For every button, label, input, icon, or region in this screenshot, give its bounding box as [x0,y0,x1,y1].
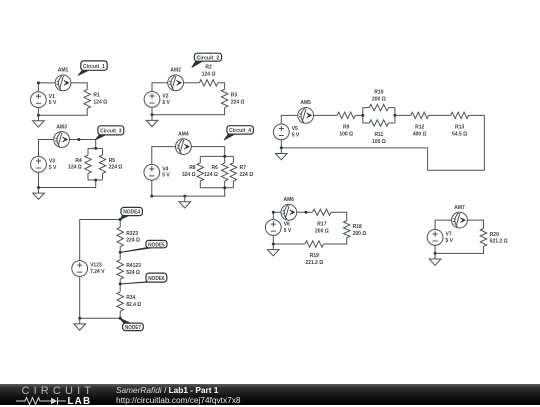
svg-text:V4: V4 [162,167,168,173]
resistor R4123 [117,252,123,284]
junction V7 bottom [434,252,437,255]
svg-text:R4: R4 [75,158,82,164]
resistor R4 [85,148,91,180]
label R18 value [353,224,367,237]
resistor R1 [84,90,90,109]
ground [74,318,86,330]
resistor R6 [222,156,228,187]
svg-text:V123: V123 [90,263,102,269]
svg-text:R1: R1 [93,93,100,99]
resistor R323 [117,220,123,253]
label V1 value [49,94,57,106]
resistor R34 [117,284,123,318]
wire parallel top rail [88,147,103,149]
flag label NODE4 [120,207,142,219]
svg-text:200 Ω: 200 Ω [315,228,329,234]
resistor R10 [369,104,388,110]
flag label Circuit_2 [192,53,222,67]
resistor R17 [313,209,332,215]
junction parallel left [361,114,364,117]
wire parallel bottom to V4 bottom [152,180,225,196]
svg-text:Circuit_4: Circuit_4 [229,128,251,134]
svg-text:AM6: AM6 [284,197,295,203]
svg-text:124 Ω: 124 Ω [202,71,216,77]
ammeter AM1 [55,75,71,91]
svg-text:R3: R3 [231,93,238,99]
svg-text:AM5: AM5 [300,100,311,106]
ammeter AM4 [176,139,192,155]
svg-text:NODE5: NODE5 [148,242,165,248]
resistor R2 [199,80,218,86]
wire chain bottom to V123 bottom [80,276,121,318]
ammeter AM7 [452,212,468,228]
junction parallel top [94,147,97,150]
svg-text:R18: R18 [353,224,362,230]
junction V5 bottom [280,146,283,149]
svg-text:400 Ω: 400 Ω [413,131,427,137]
node NODE7 junction [119,317,122,320]
voltage source V123 [72,261,88,277]
svg-text:124 Ω: 124 Ω [204,172,218,178]
wire V6 top to AM6 [273,212,281,219]
voltage source V4 [144,164,160,180]
ground [429,253,441,265]
svg-text:5 V: 5 V [292,132,300,138]
logo wire glyph [16,396,76,406]
svg-text:124 Ω: 124 Ω [68,165,82,171]
ammeter AM3 [54,132,70,148]
wire R19 to V6 bottom [273,235,305,244]
svg-text:Circuit_3: Circuit_3 [100,129,122,135]
label R20 value [490,232,508,245]
svg-text:224 Ω: 224 Ω [240,172,254,178]
resistor R9 [337,112,355,118]
svg-text:224 Ω: 224 Ω [109,165,123,171]
resistor R12 [411,112,429,118]
wire AM2 to R2 [184,82,200,84]
resistor R11 [369,120,388,126]
label R6 value [204,165,218,178]
wire to R12 [395,114,411,116]
resistor R8 [197,156,203,187]
svg-text:R323: R323 [126,231,138,237]
label R9 value [339,125,353,138]
ammeter AM6 [281,204,297,220]
wire V3 top to AM3 [39,140,54,157]
label R4 value [68,158,82,171]
svg-text:5 V: 5 V [284,228,292,234]
label R19 value [305,253,323,266]
label R3 value [231,93,245,106]
resistor R13 [451,112,469,118]
wire parallel box right [394,108,396,123]
junction V6 top [272,211,275,214]
junction circuit1 top-left [37,81,40,84]
svg-text:V2: V2 [162,94,168,100]
wire R18 bottom to R19 [324,238,347,244]
voltage source V3 [31,157,47,173]
flag label NODE6 [120,273,167,284]
resistor R7 [230,156,236,187]
ground [268,244,280,256]
svg-text:Circuit_1: Circuit_1 [83,64,105,70]
svg-text:82.4 Ω: 82.4 Ω [126,302,141,308]
svg-text:R8: R8 [189,165,196,171]
svg-text:R2: R2 [205,65,212,71]
svg-text:5 V: 5 V [446,238,454,244]
label R2 value [202,65,216,78]
label V6 value [284,222,292,234]
svg-text:Circuit_2: Circuit_2 [197,55,220,61]
label V7 value [446,232,454,244]
label R10 value [372,89,386,102]
svg-text:AM1: AM1 [58,68,69,74]
wire V7 top to AM7 [435,220,452,229]
junction circuit3 bottom-left [37,186,40,189]
junction circuit1 bottom-left [37,114,40,117]
junction c4 bottom [223,186,226,189]
svg-text:221.2 Ω: 221.2 Ω [305,260,323,266]
svg-text:200 Ω: 200 Ω [353,231,367,237]
svg-text:R11: R11 [374,132,383,138]
flag label Circuit_1 [78,61,107,75]
voltage source V5 [273,124,289,140]
wire V123 top to chain [80,220,121,261]
label R8 value [182,165,196,178]
svg-text:R34: R34 [126,295,135,301]
svg-text:R17: R17 [317,221,326,227]
junction after AM6 [304,211,307,214]
junction circuit2 bottom-left [151,113,154,116]
svg-text:5 V: 5 V [49,100,57,106]
flag label NODE5 [120,240,167,252]
svg-text:124 Ω: 124 Ω [93,100,107,106]
label R12 value [413,125,427,138]
wire AM5 to R9 [314,114,338,116]
label R34 value [126,295,141,308]
ground [146,115,158,127]
wire AM6 to R17 [297,211,313,213]
svg-text:5 V: 5 V [49,165,57,171]
wire parallel bottom rail [88,179,103,181]
voltage source V6 [265,220,281,236]
junction V123 bottom [78,317,81,320]
junction parallel right [393,114,396,117]
wire R2 to R3 top [218,83,225,89]
svg-text:200 Ω: 200 Ω [372,96,386,102]
label R7 value [240,165,254,178]
svg-text:AM4: AM4 [178,131,189,137]
svg-text:224 Ω: 224 Ω [126,238,140,244]
svg-text:NODE7: NODE7 [125,325,141,331]
wire parallel bottom to V3 bottom [39,172,96,187]
label V4 value [162,167,170,179]
wire R12 to R13 [429,114,451,116]
svg-text:54.5 Ω: 54.5 Ω [452,131,467,137]
wire R3 bottom to V2 bottom [152,107,225,115]
label R5 value [109,158,123,171]
wire parallel box left [362,108,364,123]
wire R1 bottom to V1 bottom [38,108,87,116]
junction c4 top [223,155,226,158]
node NODE4 junction [119,218,122,221]
svg-text:5 V: 5 V [162,100,170,106]
svg-text:621.2 Ω: 621.2 Ω [490,239,508,245]
svg-text:R20: R20 [490,232,499,238]
svg-text:R19: R19 [310,253,319,259]
footer title text [116,385,241,405]
svg-text:AM7: AM7 [454,205,465,211]
ammeter AM2 [168,75,184,91]
svg-text:V1: V1 [49,94,55,100]
svg-text:R13: R13 [455,125,464,131]
svg-text:R10: R10 [374,89,383,95]
svg-text:V6: V6 [284,222,290,228]
svg-text:AM3: AM3 [56,124,67,130]
wire R11 branch [363,122,395,124]
junction parallel bottom [94,179,97,182]
CircuitLab logo [22,387,96,396]
ground [179,196,191,208]
wire parallel top rail c4 [200,155,233,157]
label R13 value [452,125,467,138]
wire V1 top to AM1 [38,83,55,92]
resistor R18 [344,221,350,238]
ground [33,115,45,127]
voltage source V2 [144,92,160,108]
flag label NODE7 [120,318,144,331]
node NODE5 junction [119,251,122,254]
svg-text:R5: R5 [109,158,116,164]
wire R20 bottom to V7 bottom [435,245,483,253]
ammeter AM5 [298,108,314,124]
svg-text:R7: R7 [240,165,247,171]
wire V4 top to AM4 [152,147,176,165]
resistor R19 [305,241,324,247]
svg-text:R4123: R4123 [126,263,141,269]
label R1 value [93,93,107,106]
label R17 value [315,221,329,234]
svg-text:R9: R9 [343,125,350,131]
resistor R5 [99,148,105,180]
label V123 value [90,263,105,275]
voltage source V7 [427,230,443,246]
svg-text:AM2: AM2 [170,68,181,74]
wire AM7 to R20 top [467,220,483,228]
wire R9 to parallel box [355,114,363,116]
label R323 value [126,231,140,244]
wire AM1 to R1 top [71,83,87,90]
ground [276,148,288,160]
junction on wire after AM3 [77,138,80,141]
label V2 value [162,94,170,106]
footer bar [0,384,540,405]
wire V5 top to AM5 [281,115,298,124]
wire V2 top to AM2 [152,83,168,92]
wire AM4 to parallel feed [191,147,224,157]
svg-text:100 Ω: 100 Ω [372,139,386,145]
label V5 value [292,126,300,138]
resistor R20 [480,229,486,247]
svg-text:5 V: 5 V [162,173,170,179]
wire R13 return path to V5 [281,115,484,170]
wire R17 to R18 top [331,212,347,220]
label V3 value [49,159,57,171]
label R11 value [372,132,386,145]
label R4123 value [126,263,141,276]
wire parallel bottom rail c4 [200,187,233,189]
svg-text:R6: R6 [211,165,218,171]
ground [33,188,45,200]
svg-text:100 Ω: 100 Ω [339,131,353,137]
flag label Circuit_3 [96,126,124,140]
flag label Circuit_4 [224,126,253,140]
svg-text:NODE4: NODE4 [123,210,140,216]
svg-text:324 Ω: 324 Ω [182,172,196,178]
svg-text:7.24 V: 7.24 V [90,269,105,275]
svg-text:V7: V7 [446,232,452,238]
resistor R3 [221,89,227,108]
wire R10 branch [363,107,395,109]
svg-text:224 Ω: 224 Ω [231,99,245,105]
node NODE6 junction [119,282,122,285]
svg-text:NODE6: NODE6 [148,276,164,282]
junction c4 bottom-left [150,195,153,198]
svg-text:524 Ω: 524 Ω [126,270,140,276]
svg-text:V3: V3 [49,159,55,165]
svg-text:V5: V5 [292,126,298,132]
junction V6 bottom [272,243,275,246]
junction c4 ground [183,195,186,198]
voltage source V1 [31,92,47,108]
svg-text:R12: R12 [415,125,424,131]
wire AM3 to parallel node [70,140,96,149]
